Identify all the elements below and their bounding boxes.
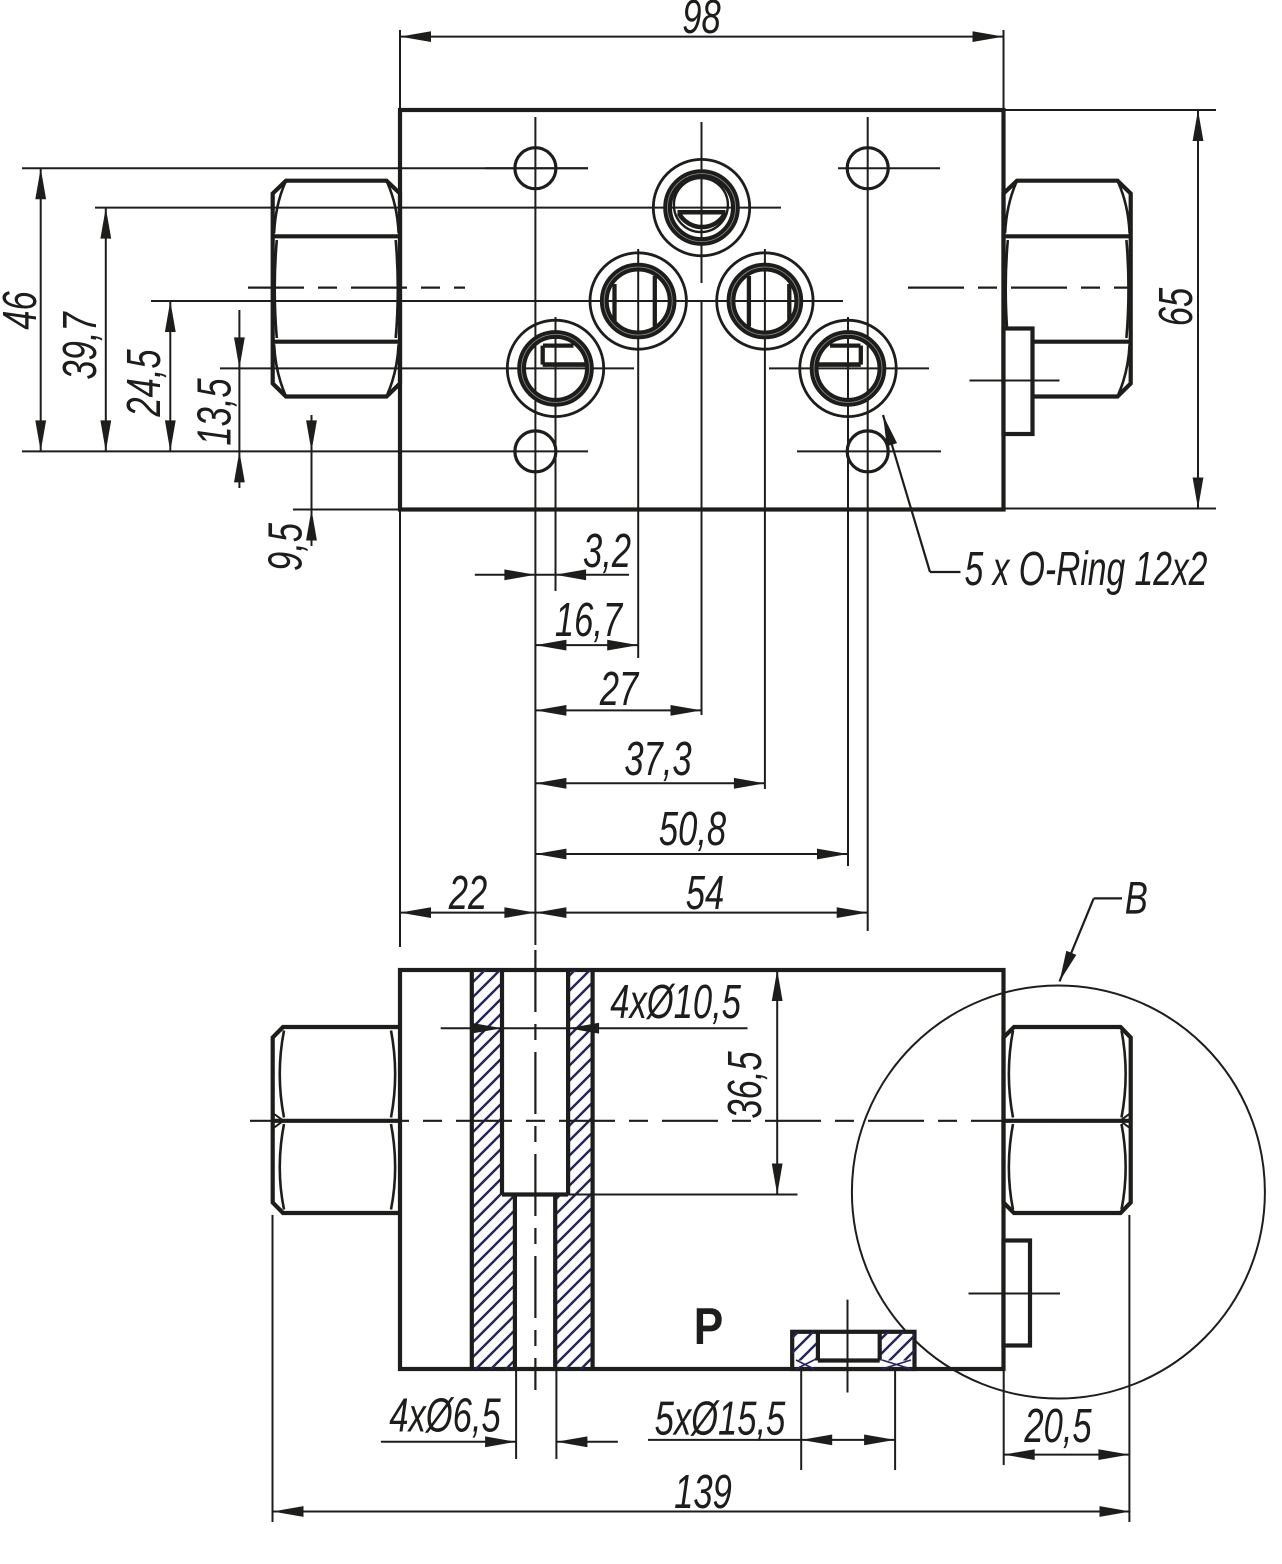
side port plate on right nut: [1004, 329, 1033, 435]
extension line y=368.4 through bottom-left port: [220, 367, 634, 369]
dimension 16,7: [535, 602, 638, 650]
crosshair y=168.2 top-right hole: [838, 167, 940, 169]
counterbore depth extension line: [568, 1194, 798, 1196]
section boundary lines: [472, 970, 593, 1369]
label P: [697, 1308, 722, 1344]
dimension 24,5: [126, 301, 175, 451]
vertical extension x=1003.5 above block (98 dim): [1003, 30, 1005, 110]
dimension 3,2: [475, 533, 631, 580]
dimension 139: [273, 1215, 1131, 1522]
vertical extension x=701.5 port P column: [701, 122, 703, 715]
vertical extension x=848 bottom-right port: [847, 317, 849, 866]
extension line y=451.4 through bottom mounting holes: [22, 450, 588, 452]
mounting hole bottom-right: [847, 431, 888, 472]
mounting hole top-left: [485, 148, 588, 189]
dimension 4xO10,5: [441, 984, 748, 1034]
O-ring callout leader: [878, 413, 961, 572]
port P top center O-ring port: [653, 159, 749, 255]
side port stub centerline: [970, 380, 1060, 382]
top view valve block body: [400, 110, 1004, 510]
dimension 27: [535, 671, 701, 715]
O-ring callout text: [965, 550, 1207, 595]
dimension 36,5: [727, 970, 782, 1195]
dimension 4xO6,5: [381, 1371, 618, 1459]
mounting hole bottom-left: [515, 431, 556, 472]
left hex nut (top view, 3 faces): [273, 181, 400, 397]
vertical extension x=555.5 bottom-left port: [555, 317, 557, 591]
right hex nut (bottom view, 2 faces): [1004, 1027, 1131, 1213]
port P section centerline: [847, 1300, 849, 1393]
bottom-left port: [507, 320, 603, 416]
middle-left port: [590, 253, 686, 349]
dimension 22: [400, 875, 535, 918]
dimension 54: [535, 876, 867, 918]
left hex nut (bottom view, 2 faces): [273, 1027, 400, 1213]
horizontal centerline (top view, dash-dot): [248, 287, 1131, 289]
65 dim extension lines right: [1004, 110, 1217, 509]
dimension 5xO15,5: [648, 1371, 895, 1470]
bottom view valve block body: [400, 970, 1004, 1369]
right hex nut (top view, 3 faces): [1004, 181, 1131, 397]
detail circle B: [852, 986, 1265, 1399]
middle-right port: [717, 253, 813, 349]
extension line y=168 through top mounting holes: [22, 167, 588, 169]
vertical extension x=867.7 right mounting hole column: [867, 117, 869, 931]
dimension 39,7: [62, 208, 111, 452]
dimension 9,5: [268, 415, 398, 570]
counterbore hole walls (diam 10.5): [502, 970, 568, 1195]
dimension 46: [2, 168, 46, 451]
extension line y=207.6 through port P: [95, 207, 781, 209]
dimension 98: [400, 0, 1004, 42]
vertical extension x=400 above block (98 dim): [399, 30, 401, 110]
crosshair y=451.4 bottom-right hole: [797, 450, 941, 452]
vertical extension x=764.9 middle-right port: [764, 249, 766, 789]
side port plate (bottom view right): [969, 1241, 1061, 1346]
vertical extension x=638.2 middle-left port: [637, 249, 639, 658]
crosshair y=368.4 bottom-right port: [769, 367, 929, 369]
dimension 37,3: [535, 741, 765, 788]
extension line y=301 through middle ports: [151, 300, 843, 302]
label B leader: [1055, 898, 1122, 983]
vertical centerline x=535.4 mounting hole column: [534, 117, 536, 945]
label B text: [1126, 882, 1147, 914]
dimension 13,5: [197, 310, 245, 488]
dimension 65: [1158, 110, 1203, 509]
mounting hole top-right: [847, 148, 888, 189]
dimension 20,5: [1004, 1215, 1130, 1522]
through hole walls (diam 6.5): [515, 1195, 555, 1370]
dimension 50,8: [535, 811, 848, 859]
horizontal centerline (bottom view, dash-dot): [250, 1120, 1095, 1122]
port P section boss (diam 15.5): [792, 1332, 914, 1369]
vertical centerline bolt hole (dash-dot): [534, 950, 536, 1390]
bottom-right port: [800, 320, 896, 416]
section hatching left bolt hole: [472, 970, 593, 1369]
vertical extension x=400 below block: [399, 510, 401, 947]
